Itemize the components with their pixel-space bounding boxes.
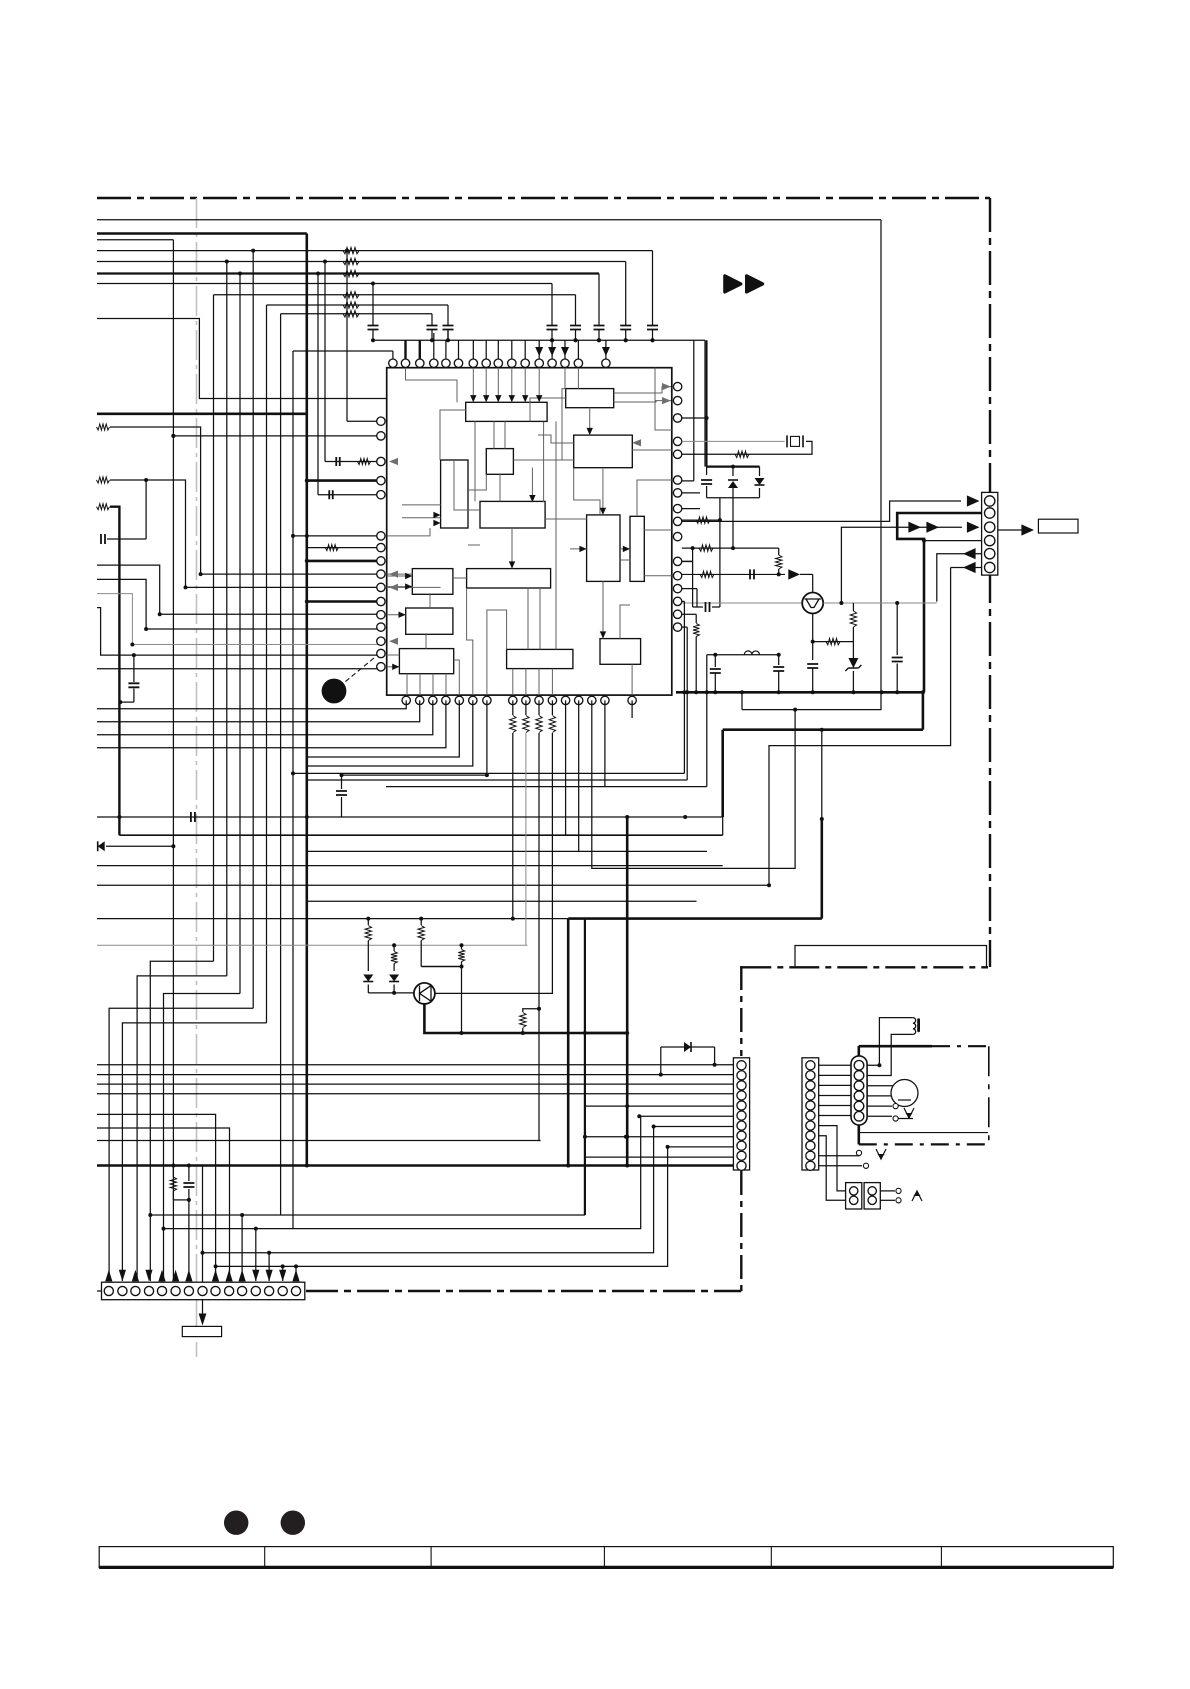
wire x687.2: [686, 627, 688, 780]
wire y250.6: [97, 250, 653, 252]
wire R24 top: [172, 1166, 174, 1178]
wire int G up: [574, 468, 600, 515]
IC U1 bottom pin 14: [588, 696, 596, 704]
wire D4a to Q2: [368, 992, 414, 994]
wire int blockN out: [631, 664, 633, 695]
connector CN-R pin 5: [985, 549, 995, 559]
wire x512.8 drop: [512, 733, 514, 919]
wire y945.3 gray: [97, 944, 527, 946]
junction bus 706.8: [705, 690, 709, 694]
IC U1 bottom pin 9: [522, 696, 530, 704]
wire bus x213.5: [213, 295, 215, 962]
junction riser x318: [316, 272, 320, 276]
wire to CN-R pin2 thick: [897, 513, 981, 692]
capacitor C19: [101, 534, 105, 544]
connector CN-R pin 4: [985, 535, 995, 545]
gray center dash line: [196, 198, 198, 1357]
wire Q1 base line: [682, 602, 802, 604]
wire pin y480.6 thick: [307, 479, 381, 482]
wire D6 top: [661, 1046, 715, 1048]
IC U1 top pin 15: [574, 359, 582, 367]
junction at 599,340.3: [597, 338, 601, 342]
wire x684.4: [683, 601, 685, 773]
wire thick y918.6: [568, 917, 822, 920]
wire x821.8 link: [821, 730, 823, 819]
wire int left pinL2: [387, 666, 400, 668]
wire int B out2: [614, 401, 671, 402]
wire CN1 p5 line: [585, 1105, 734, 1107]
wire int B in1: [564, 368, 566, 389]
junction emitter node: [811, 640, 815, 644]
wire R23 bottom: [393, 964, 395, 972]
wire R20 top: [551, 700, 553, 715]
wire CN-R pin6 run: [769, 568, 951, 886]
IC U1 right pin 12: [673, 572, 681, 580]
wire right pin3 link: [682, 417, 707, 419]
junction y435.9: [171, 434, 175, 438]
wire bridge top thick: [707, 466, 760, 468]
wire int G down: [602, 581, 604, 638]
wire cap C18 bottom lead: [652, 330, 654, 340]
wire R24d top: [461, 945, 463, 949]
wire R16 top: [852, 603, 854, 611]
connector CN3 pin 5: [806, 1101, 815, 1110]
junction y775.1: [485, 773, 489, 777]
IC internal block B: [566, 389, 614, 408]
connector CN2 pin 14: [278, 1286, 287, 1295]
connector CN5b pin 1: [868, 1187, 876, 1195]
wire int A in2: [485, 368, 487, 402]
IC U1 top pin 3: [416, 359, 424, 367]
wire int L up: [425, 634, 427, 648]
IC U1 left pin 15: [377, 649, 385, 657]
arrow into block I2: [405, 583, 412, 589]
connector CN3 pin 8: [806, 1131, 815, 1140]
junction x821.8 mid: [820, 817, 824, 821]
label box output: [1038, 519, 1078, 533]
wire bus x240: [239, 274, 241, 994]
junction S-curve: [793, 708, 797, 712]
wire x269.1 down: [268, 1253, 270, 1281]
wire CN4 p6: [867, 1115, 892, 1117]
wire right pin stub y492.9: [682, 492, 700, 494]
capacitor C14: [547, 326, 558, 330]
wire int C to right: [632, 449, 672, 451]
wire top pin stub x498.3: [497, 340, 499, 359]
diode D4a: [363, 975, 373, 982]
arrow into block A: [483, 395, 489, 402]
wire top pin stub thick a: [404, 340, 406, 359]
arrow CN2 pin 3: [132, 1270, 139, 1282]
connector CN2 pin 8: [198, 1286, 207, 1295]
wire cap C11 top lead: [372, 284, 374, 326]
junction pin6 run: [767, 883, 771, 887]
wire int long v3: [543, 422, 545, 503]
wire R18 top: [525, 700, 527, 715]
resistor R25: [776, 555, 782, 569]
wire int K in: [387, 614, 406, 616]
arrow int out pin r1: [662, 383, 671, 390]
connector CN2 strip: [102, 1282, 305, 1300]
wire D5: [106, 845, 173, 847]
resistor R04: [343, 292, 359, 298]
wire thick x584.9: [584, 919, 586, 1215]
junction x627.2 top: [625, 815, 629, 819]
capacitor C23: [701, 480, 712, 484]
wire top pin stub x525.2: [524, 340, 526, 359]
wire int B left: [530, 398, 566, 421]
resistor R16: [850, 611, 856, 627]
wire thin bump: [795, 946, 987, 968]
wire x242.1 down: [241, 1215, 243, 1281]
wire R24d bottom: [461, 962, 463, 967]
wire L1 line: [707, 654, 779, 656]
wire pin x632.1 drop: [631, 700, 633, 718]
wire SW2 stub: [855, 1155, 859, 1157]
wire bottom pin1 route: [97, 700, 406, 708]
junction at 652.5,340.3: [651, 338, 655, 342]
wire y1140.5 corner: [97, 1140, 541, 1142]
resistor R03: [343, 270, 359, 276]
wire bridge left: [706, 467, 708, 475]
IC U1 right pin 3: [673, 414, 681, 422]
resistor R26: [700, 571, 714, 577]
arrow CN-R pin6: [963, 562, 976, 573]
wire y668.8 to pin: [97, 668, 381, 670]
junction x584 p8: [583, 1135, 587, 1139]
thin frame vertical x881: [880, 220, 882, 710]
wire R17 top: [512, 700, 514, 715]
wire x706.6 drop: [706, 340, 708, 466]
connector CN1 pin 5: [737, 1101, 746, 1110]
arrow fwd b: [926, 522, 939, 533]
IC U1 body: [387, 368, 672, 695]
wire int blockM out2: [525, 669, 527, 696]
capacitor C26: [892, 658, 903, 662]
wire pin x604.9 drop: [604, 700, 606, 786]
arrow int to pin 587: [389, 584, 398, 591]
junction at 922.9,692.3: [921, 690, 925, 694]
capacitor C31: [183, 1183, 194, 1187]
wire RC link: [173, 1199, 189, 1201]
connector CN2 pin 12: [251, 1286, 260, 1295]
wire pin 561 link: [682, 560, 693, 562]
junction cap C18: [651, 338, 655, 342]
junction cap C11: [371, 338, 375, 342]
IC U1 left pin 16: [377, 663, 385, 671]
junction bridge out: [731, 546, 735, 550]
junction C31 btm: [187, 1198, 191, 1202]
wire y607.6 to pin: [97, 608, 381, 656]
wire thick bus vertical x306.8: [305, 234, 308, 1166]
wire int A in1: [472, 368, 474, 402]
wire top pin stub d: [445, 340, 447, 359]
wire int D down: [499, 474, 501, 501]
junction D6 left: [659, 1073, 663, 1077]
arrow into top pin x565: [561, 347, 569, 356]
wire thick bus top: [97, 232, 307, 235]
wire int C down: [602, 468, 604, 515]
wire C20 bottom lead: [133, 689, 135, 703]
wire int E in2: [402, 517, 441, 519]
connector CN2 pin 2: [118, 1286, 127, 1295]
wire int B to C: [589, 408, 591, 435]
wire bottom pin7 drop: [486, 700, 488, 775]
junction x687.2 bus: [685, 690, 689, 694]
junction D6 right: [713, 1063, 717, 1067]
resistor R24d: [458, 950, 464, 962]
junction pin y535.9: [291, 534, 295, 538]
IC internal block F: [480, 501, 545, 528]
wire int H left2: [620, 548, 630, 550]
wire to jack box: [202, 1300, 204, 1321]
arrow into block I1: [405, 573, 412, 579]
arrow into top pin x605.9: [602, 347, 610, 356]
resistor R13: [696, 517, 710, 523]
note dot 1: [224, 1511, 248, 1535]
wire R09 to thick bus: [110, 507, 119, 836]
connector CN4 pin 4: [854, 1091, 864, 1101]
connector CN1: [733, 1058, 749, 1170]
wire to CN-R pin1: [682, 501, 961, 521]
IC U1 bottom pin 16: [628, 696, 636, 704]
wire thick y1165.5: [97, 1164, 733, 1167]
wire pin y494.7: [318, 494, 381, 496]
junction at 306.8,1165.5: [305, 1164, 309, 1168]
arrow int into C right: [632, 439, 641, 446]
connector CN4 pin 6: [854, 1112, 864, 1122]
arrow CN2 pin 10: [226, 1270, 233, 1282]
junction x242.1: [240, 1213, 244, 1217]
IC U1 top pin 4: [430, 359, 438, 367]
wire CN1 p4 line: [97, 1093, 733, 1095]
wire thick y413.8: [97, 412, 307, 415]
arrow int out pin r2: [662, 397, 671, 404]
junction y817 a: [117, 815, 121, 819]
IC U1 bottom pin 6: [469, 696, 477, 704]
IC internal block I: [412, 569, 453, 595]
wire pin y421.2 riser: [346, 251, 348, 422]
wire R08 branch: [110, 480, 381, 587]
wire pin y421.2: [347, 420, 381, 422]
wire x282.7 down: [282, 1266, 284, 1281]
junction x627 p11: [625, 1164, 629, 1168]
wire thick riser: [922, 692, 925, 729]
IC U1 left pin 13: [377, 623, 385, 631]
arrow CN2 pin 5: [158, 1270, 165, 1282]
junction y945.3 a: [392, 943, 396, 947]
wire thick x722.7 drop: [721, 730, 724, 817]
connector CN2 pin 6: [171, 1286, 180, 1295]
connector CN3 pin 9: [806, 1141, 815, 1150]
resistor R10: [358, 459, 371, 465]
wire thick y729.7: [723, 728, 923, 731]
wire D6 left leg: [660, 1047, 662, 1075]
arrow into block C: [587, 428, 593, 435]
junction R08: [144, 478, 148, 482]
junction at 879.4,1065.3: [877, 1063, 881, 1067]
wire L1 left drop: [706, 655, 708, 787]
junction cap C12: [430, 338, 434, 342]
wire CN1 p8 line: [585, 1136, 734, 1138]
IC U1 top pin 1: [389, 359, 397, 367]
arrow CN2 pin 6: [172, 1270, 179, 1282]
IC U1 left pin 14: [377, 637, 385, 645]
capacitor C30: [336, 791, 347, 795]
wire D1 btm: [732, 488, 734, 498]
wire R24c link: [421, 966, 461, 968]
note dot 2: [281, 1511, 305, 1535]
IC U1 left pin 5: [377, 491, 385, 499]
wire y283.5: [97, 283, 552, 285]
wire C19 lead: [107, 538, 146, 540]
switch SW2 contact a: [856, 1150, 861, 1155]
IC U1 left pin 2: [377, 432, 385, 440]
wire int top right v: [655, 368, 672, 430]
connector CN5a: [846, 1183, 862, 1209]
junction stair1228: [162, 1227, 166, 1231]
wire x461.5 drop: [461, 967, 463, 1034]
wire stair y1266: [216, 1147, 668, 1267]
diode D2: [755, 478, 765, 485]
junction stair1252: [201, 1251, 205, 1255]
wire CN3-CN4 pin 4: [819, 1094, 851, 1096]
IC U1 bottom pin 15: [601, 696, 609, 704]
wire bus drop x705: [704, 340, 706, 466]
wire int G left2: [570, 548, 587, 550]
connector CN-R pin 6: [985, 562, 995, 572]
junction at 653.6,1126.5: [652, 1125, 656, 1129]
coil T1: [913, 1018, 916, 1035]
junction cap C15: [574, 338, 578, 342]
wire y565.1 to pin: [97, 565, 381, 614]
wire CN1 p3 line: [97, 1083, 733, 1085]
junction at 306.8,560.9: [305, 559, 309, 563]
connector CN2 pin 11: [238, 1286, 247, 1295]
junction cap C13: [446, 338, 450, 342]
wire y305: [267, 304, 449, 306]
wire int I in1: [387, 575, 413, 577]
IC U1 left pin 6: [377, 532, 385, 540]
wire CN3-CN4 pin 2: [819, 1074, 851, 1076]
resistor R24: [170, 1177, 176, 1191]
wire int D up2: [504, 421, 506, 448]
wire CN4 p3 to motor: [867, 1085, 893, 1087]
dash-dot vertical x741 upper: [740, 966, 742, 1056]
IC U1 bottom pin 4: [442, 696, 450, 704]
wire x539 drop: [539, 733, 541, 1141]
IC U1 left pin 7: [377, 543, 385, 551]
junction R22 top: [366, 917, 370, 921]
wire top pin stub x539.2: [538, 340, 540, 359]
wire D1 top lead: [732, 467, 734, 476]
connector CN2 pin 1: [104, 1286, 113, 1295]
junction x512.8: [511, 917, 515, 921]
capacitor C20: [128, 683, 139, 687]
connector CN3 pin 10: [806, 1151, 815, 1160]
connector CN2 pin 9: [211, 1286, 220, 1295]
junction x240: [238, 272, 242, 276]
wire CN1 p2 line: [97, 1074, 733, 1076]
connector CN1 pin 1: [737, 1061, 746, 1070]
wire right pin y520.1: [682, 519, 720, 521]
wire bridge bottom: [707, 497, 760, 499]
resistor R12: [735, 451, 749, 457]
wire bottom pin3 route: [97, 700, 433, 734]
wire stair y1228: [164, 1116, 641, 1228]
wire bus x266.5: [266, 305, 268, 1023]
wire cap C13 top lead: [447, 305, 449, 325]
wire y273.5 thick: [97, 272, 599, 274]
motor M1: [891, 1080, 918, 1107]
junction at 552,340.3: [550, 338, 554, 342]
wire int E right: [468, 474, 486, 490]
wire pin y535.9: [293, 535, 381, 537]
wire int blockL out4: [445, 674, 447, 695]
wire int pinB6: [467, 588, 473, 695]
junction pin4: [922, 539, 926, 543]
IC U1 right pin 7: [673, 489, 681, 497]
wire int H up: [637, 480, 672, 516]
wire CN-R pin5: [937, 554, 982, 602]
IC U1 left pin 4: [377, 476, 385, 484]
zener D3: [848, 658, 858, 668]
arrow fwd a: [908, 522, 921, 533]
resistor R11: [325, 545, 338, 551]
junction pin3 x706.6: [705, 416, 709, 420]
switch SW2 arrow: [876, 1149, 886, 1159]
wire R07 to pin: [110, 427, 381, 574]
connector CN3 pin 4: [806, 1091, 815, 1100]
wire cap C14 bottom lead: [551, 330, 553, 340]
junction x627 p5: [625, 1104, 629, 1108]
junction at 627.2,1033: [625, 1031, 629, 1035]
wire x202.5 down: [202, 1166, 204, 1300]
arrow y574.4: [788, 569, 800, 579]
wire crystal top: [682, 440, 785, 442]
IC U1 right pin 9: [673, 517, 681, 525]
junction R24d: [460, 965, 464, 969]
IC U1 top pin 6: [454, 359, 462, 367]
thin frame line: [97, 219, 881, 221]
arrow into block E1: [433, 512, 440, 518]
wire int F dn2: [531, 468, 533, 503]
IC internal block H: [630, 516, 644, 581]
IC U1 bottom pin 2: [416, 696, 424, 704]
arrow into top pin x552.1: [548, 347, 556, 356]
arrow CN2 pin 7: [185, 1270, 192, 1282]
connector CN1 pin 11: [737, 1161, 746, 1170]
IC U1 bottom pin 3: [429, 696, 437, 704]
wire cap C14 top lead: [551, 284, 553, 326]
IC U1 bottom pin 11: [548, 696, 556, 704]
wire pin y435.9: [173, 435, 380, 437]
junction cap C14: [550, 338, 554, 342]
wire int B out1: [614, 387, 671, 393]
connector CN1 pin 6: [737, 1111, 746, 1120]
wire Q1 base to risers: [823, 602, 937, 604]
arrow CN2 pin 13: [266, 1270, 273, 1282]
wire cap C12 top lead: [431, 314, 433, 325]
IC internal block D: [486, 449, 513, 475]
wire C26 bottom: [896, 664, 898, 693]
transistor Q1: [802, 593, 823, 614]
fast-forward symbol: [725, 276, 763, 292]
switch SW3 contact a: [896, 1188, 901, 1193]
wire riser x318: [317, 274, 319, 495]
arrow into block A: [509, 395, 515, 402]
IC U1 bottom pin 12: [561, 696, 569, 704]
